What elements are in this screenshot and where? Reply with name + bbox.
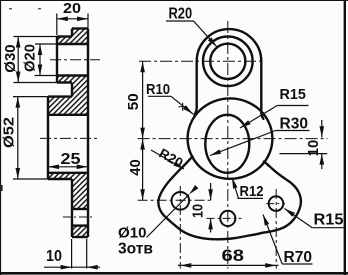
svg-text:68: 68 — [222, 247, 245, 265]
svg-text:R15: R15 — [314, 212, 344, 229]
svg-text:3отв: 3отв — [118, 241, 153, 258]
svg-text:20: 20 — [63, 1, 81, 17]
svg-text:R20: R20 — [169, 6, 193, 23]
svg-text:R12: R12 — [240, 183, 264, 200]
svg-text:Ø10: Ø10 — [118, 226, 147, 242]
svg-text:10: 10 — [190, 204, 207, 218]
svg-text:R10: R10 — [146, 81, 170, 98]
svg-text:R15: R15 — [280, 86, 306, 103]
svg-text:Ø20: Ø20 — [23, 44, 39, 72]
svg-text:Ø30: Ø30 — [3, 44, 19, 72]
svg-text:40: 40 — [127, 159, 144, 176]
svg-text:10: 10 — [46, 248, 62, 265]
svg-text:Ø52: Ø52 — [1, 117, 18, 148]
svg-text:50: 50 — [126, 93, 142, 110]
